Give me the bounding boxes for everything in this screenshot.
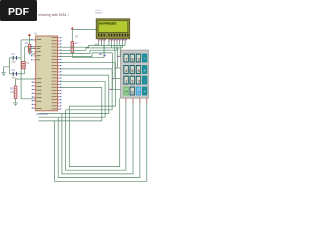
svg-text:C2: C2 [12,68,16,72]
svg-text:LM016L: LM016L [95,13,103,15]
svg-text:÷: ÷ [144,57,146,61]
pin numbers right (blue specks) [60,37,62,109]
wire: ground branch [4,67,10,73]
wire: crystal right vertical [24,47,26,74]
svg-text:LCD1: LCD1 [95,10,101,12]
PDF badge [0,0,37,21]
svg-text:ON: ON [125,92,129,94]
lcd LCD1 labels [95,10,103,15]
lcd pin numbers (blue specks) [99,39,127,40]
svg-text:R2: R2 [75,35,79,39]
capacitor C1 [12,52,17,63]
wire: keypad column loop 5 [39,88,147,182]
svg-text:5: 5 [131,69,133,73]
svg-text:erfacing with 8051 !: erfacing with 8051 ! [38,13,68,17]
keypad row labels (purple specks) [110,56,120,90]
svg-text:1: 1 [125,80,127,84]
row 3 [123,76,128,85]
wire: RST net vertical from power [29,36,31,44]
pin names inside chip (dark specks) [37,37,57,109]
svg-text:C1: C1 [12,52,16,56]
svg-text:6: 6 [138,69,140,73]
wire: XTAL1 horizontal [21,39,36,41]
wire: keypad column loop 3 [39,75,134,174]
wire: LCD bus horizontals [86,45,125,53]
row 2 [123,65,128,74]
svg-text:4: 4 [125,69,127,73]
svg-text:AT89C51: AT89C51 [36,112,48,116]
pins: left side stubs [34,40,36,108]
resistor RV1 (LCD contrast) [71,35,79,53]
wire: XTAL2 horizontal [25,46,36,48]
wire: RV1 bottom to LCD VEE [72,44,104,57]
svg-text:8: 8 [131,57,133,61]
keypad buttons grid [123,54,147,96]
wire: bus staircase into chip top pins [60,45,93,56]
wire: top VCC rail to LCD [72,29,98,41]
svg-text:0: 0 [131,90,133,94]
wire: caps left vertical [9,58,11,74]
wire: C2 horizontal [10,73,25,75]
net label specks (blue) [99,54,106,56]
pins: right side stubs [58,38,60,109]
power +5V (rail) [71,27,74,30]
crystal X1 [21,61,30,69]
wire: RST into chip [30,49,36,55]
resistor R1 [10,86,17,99]
svg-text:2: 2 [131,80,133,84]
wire: keypad column loop 2 [60,69,126,170]
wire: keypad row net 2 [118,48,121,68]
ground: left [1,73,5,76]
wire: R1 net [16,79,36,86]
capacitor C3 [25,41,31,52]
wire: C1 horizontal [10,57,22,59]
keypad panel [121,50,149,98]
svg-text:C3: C3 [25,41,29,45]
svg-text:30p: 30p [12,61,17,64]
wire: keypad row net 3 [115,50,121,78]
svg-text:X1: X1 [26,61,30,65]
wire: LCD VSS/VDD drops [95,42,105,58]
capacitor C2 [12,68,17,80]
ground: below R1 [13,103,18,106]
svg-text:U1: U1 [34,32,38,36]
pin numbers left (blue specks) [31,39,33,109]
wire: R1 to ground [15,99,17,104]
svg-text:PDF: PDF [8,6,30,18]
wire: keypad column loop 1 (from chip right pin, around bottom) [60,63,120,167]
keypad column pin stubs (red) [126,98,147,103]
wire: LCD RS/RW/E and data drops [109,42,125,51]
svg-text:3: 3 [138,80,140,84]
row 1 [123,54,128,63]
microcontroller U1 body [34,32,57,116]
power +5V (reset) [28,33,31,36]
row 4 [123,87,128,96]
svg-text:KEY PRESSED:: KEY PRESSED: [99,22,117,26]
svg-text:x: x [144,69,146,73]
wire: crystal left vertical [20,40,22,74]
wire: keypad row net 1 (drop from bus) [119,45,122,56]
lcd pin name strip [98,34,128,37]
wire: EA vertical [21,74,36,99]
wire: keypad row net 4 [112,53,120,89]
lcd pin stubs below [99,39,125,42]
wire: keypad column loop 4 [39,81,140,177]
svg-text:7: 7 [125,57,127,61]
svg-text:9: 9 [138,57,140,61]
lcd LCD1 module [96,19,130,39]
